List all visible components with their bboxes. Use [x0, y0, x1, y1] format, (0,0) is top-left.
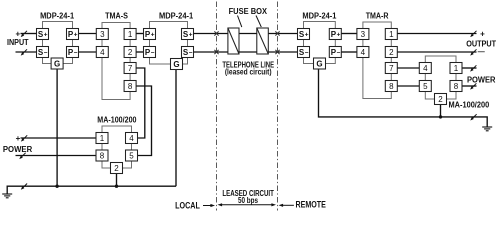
junction G U1 / ground bus	[55, 185, 58, 188]
pin 7 TMA-R	[385, 63, 397, 74]
pin 8 TMA-S	[124, 81, 136, 92]
wire pin 8 TMA-R to pin 5 MA-R	[397, 85, 419, 87]
crossing mark local line top	[214, 31, 218, 35]
svg-text:MDP-24-1: MDP-24-1	[159, 12, 194, 21]
svg-text:+: +	[189, 32, 193, 39]
svg-text:5: 5	[423, 82, 428, 91]
module MDP-24-1 U4 outline	[304, 22, 336, 64]
terminal P- U4	[329, 47, 341, 58]
svg-text:+: +	[337, 32, 341, 39]
svg-text:MDP-24-1: MDP-24-1	[40, 12, 75, 21]
svg-text:−: −	[189, 50, 193, 57]
svg-text:OUTPUT: OUTPUT	[466, 40, 496, 49]
svg-text:4: 4	[423, 64, 428, 73]
svg-text:4: 4	[100, 48, 105, 57]
svg-text:+: +	[151, 32, 155, 39]
off-page arrow ground left	[21, 184, 27, 190]
pin 8 MA-L	[96, 150, 108, 161]
svg-text:TMA-R: TMA-R	[366, 12, 389, 21]
wire pin 2 MA-L to ground bus	[116, 174, 118, 187]
wire G U1 to ground bus	[56, 69, 58, 186]
svg-text:+: +	[15, 29, 20, 38]
crossing mark remote line top	[275, 31, 279, 35]
pin 4 TMA-S	[96, 47, 108, 58]
wire pin 1 TMA-S to P+ U3	[136, 33, 143, 35]
pin 2 TMA-R	[385, 47, 397, 58]
module TMA-R U5 outline	[363, 22, 391, 99]
off-page arrow power + right	[470, 65, 476, 71]
svg-text:+: +	[16, 134, 21, 143]
wire power - to pin 8 MA-L	[16, 155, 97, 157]
svg-text:(leased circuit): (leased circuit)	[225, 68, 272, 77]
pin 1 MA-L	[96, 133, 108, 144]
svg-text:−: −	[305, 50, 309, 57]
wire pin 1 TMA-R to output +	[397, 33, 476, 35]
terminal S- U4	[298, 47, 310, 58]
wire between fuses top	[239, 33, 257, 35]
pin 4 MA-L	[126, 133, 138, 144]
svg-text:−: −	[151, 50, 155, 57]
svg-text:4: 4	[361, 48, 366, 57]
wire input - to S-	[16, 51, 37, 53]
svg-text:50 bps: 50 bps	[238, 196, 259, 205]
svg-text:3: 3	[100, 30, 105, 39]
wire pin 1 MA-R to power +	[462, 67, 477, 69]
fuse F1	[228, 28, 239, 54]
dimension line leased circuit	[221, 204, 273, 206]
terminal S+ U4	[298, 29, 310, 40]
wire pin 2 MA-R to ground bus	[440, 105, 442, 117]
leader line to fuse F2	[256, 16, 261, 28]
svg-text:G: G	[173, 60, 179, 69]
terminal G U1	[51, 58, 63, 69]
wire fuse to S- U4	[268, 51, 297, 53]
ground left	[2, 194, 12, 198]
svg-text:8: 8	[389, 82, 394, 91]
svg-text:REMOTE: REMOTE	[296, 200, 326, 210]
crossing mark remote line bottom	[275, 50, 279, 54]
pin 1 MA-R	[450, 63, 462, 74]
wire pin 2 TMA-R to output -	[397, 51, 476, 53]
pin 5 MA-R	[419, 81, 431, 92]
module TMA-S U2 outline	[102, 23, 130, 100]
pin 4 MA-R	[419, 63, 431, 74]
svg-text:1: 1	[100, 134, 105, 143]
svg-text:MA-100/200: MA-100/200	[97, 116, 137, 125]
wire P- to pin 4 TMA-S	[79, 51, 97, 53]
wire pin 7 TMA-S to pin 4 MA-L	[136, 68, 145, 138]
pin 3 TMA-R	[357, 29, 369, 40]
svg-text:MA-100/200: MA-100/200	[449, 101, 490, 110]
wire P- U4 to pin 4 TMA-R	[341, 51, 357, 53]
svg-text:1: 1	[389, 30, 394, 39]
svg-text:G: G	[316, 59, 322, 68]
pin 1 TMA-R	[385, 29, 397, 40]
wire pin 8 MA-R to power -	[462, 85, 477, 87]
pin 3 TMA-S	[96, 29, 108, 40]
off-page arrow output +	[470, 31, 476, 37]
dimension line LOCAL	[203, 205, 212, 207]
wire fuse to S+ U4	[268, 33, 297, 35]
leader line to fuse F1	[238, 16, 242, 28]
terminal S- U1	[37, 47, 49, 58]
svg-text:INPUT: INPUT	[7, 38, 29, 47]
op-amp module MDP-24-1 U1 outline	[43, 22, 73, 64]
module MDP-24-1 U3 outline	[150, 22, 188, 65]
svg-text:4: 4	[129, 134, 134, 143]
terminal P- U3	[144, 47, 156, 58]
arrowhead leased left	[218, 203, 223, 206]
svg-text:—: —	[478, 49, 485, 56]
wire pin 2 TMA-S to P- U3	[136, 51, 143, 53]
wire S+ U3 to fuse box	[194, 33, 228, 35]
svg-text:+: +	[480, 29, 485, 38]
fuse F2	[257, 28, 269, 54]
wire pin 8 TMA-S to pin 5 MA-L	[136, 86, 151, 156]
wire S- U3 to fuse box	[194, 51, 228, 53]
pin 4 TMA-R	[357, 47, 369, 58]
pin 7 TMA-S	[124, 63, 136, 74]
svg-text:−: −	[74, 50, 78, 57]
wire G U3 to ground bus	[175, 70, 177, 187]
svg-text:MDP-24-1: MDP-24-1	[302, 12, 337, 21]
off-page arrow ground right	[470, 114, 476, 120]
svg-text:TMA-S: TMA-S	[105, 12, 128, 21]
wire P+ to pin 3 TMA-S	[79, 33, 97, 35]
section boundary dash-dot line (local/leased)	[216, 2, 218, 211]
svg-text:3: 3	[361, 30, 366, 39]
svg-text:POWER: POWER	[3, 145, 33, 154]
terminal P- U1	[67, 47, 79, 58]
crossing mark local line bottom	[214, 50, 218, 54]
wire pin 7 TMA-R to pin 4 MA-R	[397, 67, 419, 69]
terminal P+ U4	[329, 29, 341, 40]
svg-text:−: −	[337, 50, 341, 57]
wire G U4 to right ground bus	[319, 69, 488, 128]
svg-text:7: 7	[389, 64, 394, 73]
terminal S- U3	[182, 47, 194, 58]
ground right	[482, 127, 492, 131]
svg-text:8: 8	[100, 151, 105, 160]
svg-text:1: 1	[454, 64, 459, 73]
off-page arrow power + left	[21, 135, 27, 141]
svg-text:LOCAL: LOCAL	[175, 201, 200, 211]
pin 2 TMA-S	[124, 47, 136, 58]
wire power + to pin 1 MA-L	[21, 137, 97, 139]
junction pin2 MA-L / ground bus	[115, 185, 118, 188]
wire P+ U4 to pin 3 TMA-R	[341, 33, 357, 35]
svg-text:POWER: POWER	[467, 75, 496, 84]
svg-text:2: 2	[438, 95, 443, 104]
svg-text:8: 8	[454, 82, 459, 91]
pin 2 MA-L	[111, 163, 123, 174]
terminal G U3	[171, 59, 183, 70]
wire between fuses bottom	[239, 51, 257, 53]
pin 8 TMA-R	[385, 81, 397, 92]
arrowhead LOCAL right	[210, 204, 215, 207]
wire left ground bus	[7, 186, 176, 194]
pin 5 MA-L	[126, 150, 138, 161]
terminal S+ U3	[182, 29, 194, 40]
terminal G U4	[314, 58, 326, 69]
off-page arrow output -	[470, 49, 476, 55]
svg-text:2: 2	[114, 164, 119, 173]
svg-text:FUSE BOX: FUSE BOX	[229, 7, 268, 16]
svg-text:1: 1	[128, 30, 133, 39]
module MA-100/200 U6 outline	[425, 56, 456, 99]
svg-text:8: 8	[128, 82, 133, 91]
off-page arrow power - left	[19, 153, 25, 159]
svg-text:+: +	[44, 32, 48, 39]
pin 1 TMA-S	[124, 29, 136, 40]
junction pin2 MA-R / ground bus	[439, 115, 442, 118]
svg-text:+: +	[74, 32, 78, 39]
svg-text:2: 2	[128, 48, 133, 57]
terminal S+ U1	[37, 29, 49, 40]
terminal P+ U3	[144, 29, 156, 40]
svg-text:−: −	[44, 50, 48, 57]
module MA-100/200 U7 outline	[102, 126, 132, 168]
arrowhead REMOTE left	[279, 204, 284, 207]
svg-text:7: 7	[128, 64, 133, 73]
off-page arrow input +	[21, 31, 27, 37]
section boundary dash-dot line (leased/remote)	[277, 2, 279, 211]
pin 8 MA-R	[450, 81, 462, 92]
svg-text:+: +	[305, 32, 309, 39]
svg-text:2: 2	[389, 48, 394, 57]
pin 2 MA-R	[435, 94, 447, 105]
wire input + to S+	[21, 33, 37, 35]
terminal P+ U1	[67, 29, 79, 40]
dimension line REMOTE	[282, 204, 294, 206]
svg-text:G: G	[54, 59, 60, 68]
off-page arrow power - right	[470, 83, 476, 89]
off-page arrow input -	[21, 49, 27, 55]
arrowhead leased right	[271, 203, 276, 206]
svg-text:5: 5	[129, 151, 134, 160]
